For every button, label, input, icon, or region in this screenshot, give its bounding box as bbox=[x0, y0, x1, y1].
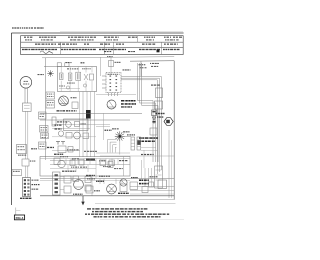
svg-text:FIG.4: FIG.4 bbox=[16, 216, 24, 220]
